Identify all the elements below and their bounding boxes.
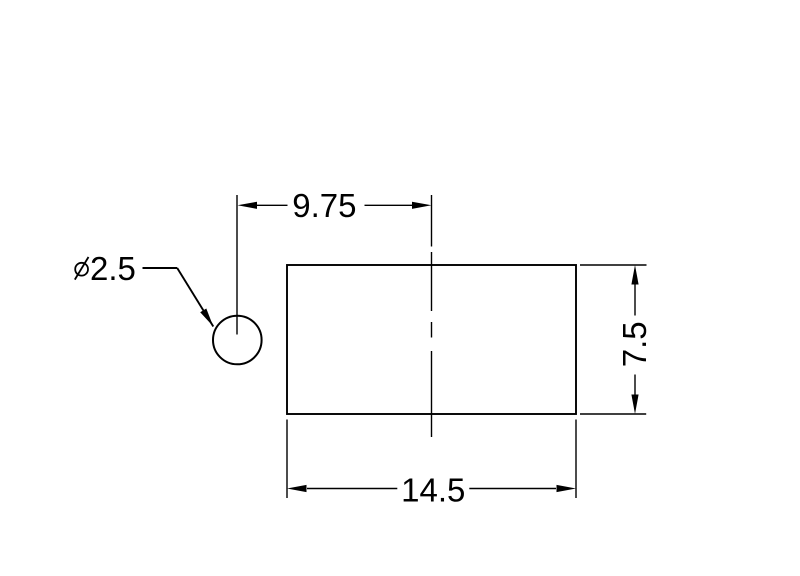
svg-text:14.5: 14.5 — [401, 471, 465, 508]
svg-text:7.5: 7.5 — [616, 321, 653, 367]
svg-text:9.75: 9.75 — [292, 187, 356, 224]
svg-text:2.5: 2.5 — [90, 250, 136, 287]
